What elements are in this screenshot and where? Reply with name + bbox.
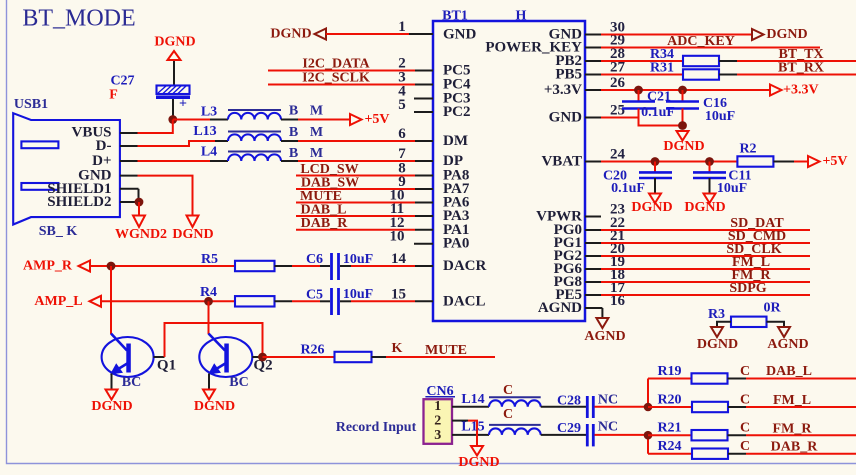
resistor R5 — [201, 252, 330, 271]
ground AGND (R3) — [778, 327, 790, 337]
node Q2 base/R26 — [258, 353, 267, 362]
svg-text:NC: NC — [598, 393, 618, 408]
inductor L4 — [201, 145, 323, 162]
svg-text:1: 1 — [434, 399, 441, 414]
svg-text:R3: R3 — [708, 307, 725, 322]
svg-text:C: C — [503, 383, 513, 398]
inductor L14 — [461, 383, 586, 407]
node AMP_L/Q2 — [204, 297, 213, 306]
svg-text:DAB_R: DAB_R — [301, 216, 349, 231]
capacitor C29 — [557, 420, 648, 447]
wire DAB_R — [296, 229, 415, 231]
svg-text:C27: C27 — [110, 74, 134, 89]
svg-text:FM_L: FM_L — [773, 393, 811, 408]
wire I2C_DATA — [268, 70, 415, 72]
svg-text:R4: R4 — [200, 285, 217, 300]
ground DGND (CN6) — [471, 446, 483, 456]
right pin numbers — [610, 20, 626, 310]
svg-text:Record Input: Record Input — [336, 420, 417, 435]
svg-text:Q1: Q1 — [157, 358, 176, 374]
svg-text:B: B — [289, 125, 298, 140]
svg-text:R31: R31 — [650, 61, 674, 76]
wire D+ to L4 — [138, 160, 211, 162]
svg-text:I2C_DATA: I2C_DATA — [302, 57, 370, 72]
net AMP_R — [23, 259, 235, 274]
svg-text:M: M — [310, 125, 323, 140]
svg-text:DGND: DGND — [91, 399, 132, 414]
wire L13 to pin6 — [281, 140, 298, 142]
capacitor C16 — [666, 90, 735, 124]
ground DGND (Q1) — [106, 390, 118, 400]
svg-text:DACR: DACR — [443, 258, 486, 274]
svg-text:VBAT: VBAT — [541, 154, 582, 170]
svg-text:DGND: DGND — [684, 200, 725, 215]
svg-text:C: C — [740, 393, 750, 408]
svg-text:R26: R26 — [300, 342, 324, 357]
svg-text:L13: L13 — [193, 124, 216, 139]
node VBAT/C20 — [651, 157, 660, 166]
left pin numbers — [390, 19, 407, 303]
svg-text:14: 14 — [391, 251, 407, 267]
connector USB1 — [13, 97, 138, 239]
ground AGND pin16 — [584, 308, 625, 344]
svg-text:C6: C6 — [306, 252, 323, 267]
svg-text:+: + — [179, 97, 187, 112]
svg-text:DGND: DGND — [172, 227, 213, 242]
svg-text:C5: C5 — [306, 288, 323, 303]
svg-text:M: M — [310, 103, 323, 118]
svg-text:M: M — [310, 146, 323, 161]
ground DGND (top) — [154, 35, 195, 61]
svg-text:ADC_KEY: ADC_KEY — [667, 34, 735, 49]
svg-text:USB1: USB1 — [14, 97, 48, 112]
svg-text:DGND: DGND — [766, 27, 807, 42]
svg-text:R19: R19 — [657, 364, 681, 379]
svg-text:BC: BC — [122, 375, 141, 390]
wire ADC_KEY pin29 — [601, 47, 820, 49]
svg-text:NC: NC — [598, 420, 618, 435]
resistor R2 — [737, 142, 808, 167]
svg-text:DAB_L: DAB_L — [766, 364, 812, 379]
svg-text:DGND: DGND — [631, 200, 672, 215]
capacitor C11 — [693, 162, 752, 197]
node AMP_R/Q1 — [107, 262, 116, 271]
svg-text:DGND: DGND — [154, 35, 195, 50]
node R21 — [644, 431, 653, 440]
wire DAB_L — [296, 215, 415, 217]
ground DGND (R3) — [711, 327, 723, 337]
svg-text:L3: L3 — [201, 105, 217, 120]
ground WGND2 — [133, 216, 145, 228]
svg-text:FM_R: FM_R — [773, 422, 813, 437]
wire SD_CLK pin20 — [601, 255, 810, 257]
svg-text:GND: GND — [549, 110, 583, 126]
svg-text:1: 1 — [398, 19, 406, 35]
svg-text:C: C — [740, 421, 750, 436]
svg-text:0R: 0R — [763, 301, 781, 316]
svg-text:24: 24 — [610, 147, 626, 163]
wire SHIELD1/2 — [138, 189, 140, 202]
resistor R26 — [263, 342, 387, 362]
svg-text:2: 2 — [434, 414, 441, 429]
svg-text:AMP_R: AMP_R — [23, 259, 73, 274]
svg-text:10uF: 10uF — [343, 287, 373, 302]
wire SDPG pin17 — [601, 294, 810, 296]
svg-text:BT_RX: BT_RX — [778, 61, 824, 76]
net AMP_L — [34, 294, 235, 309]
node VBUS junction — [168, 115, 177, 124]
capacitor C28 — [557, 393, 648, 419]
wire L3 to +5V — [281, 119, 298, 121]
svg-text:B: B — [289, 103, 298, 118]
resistor R21 — [648, 421, 856, 441]
node pin26/C21 — [634, 86, 643, 95]
resistor R20 — [648, 393, 856, 413]
wire I2C_SCLK — [268, 84, 415, 86]
svg-text:AGND: AGND — [767, 337, 808, 352]
svg-text:+3.3V: +3.3V — [544, 82, 582, 98]
wire pin25 to cap bus — [601, 117, 639, 119]
svg-text:R21: R21 — [657, 421, 681, 436]
svg-text:D-: D- — [96, 138, 112, 154]
svg-text:BT_MODE: BT_MODE — [22, 6, 135, 32]
svg-text:B: B — [289, 146, 298, 161]
capacitor C21 — [622, 90, 675, 121]
svg-text:WGND2: WGND2 — [115, 227, 167, 242]
node pin26/C16 — [678, 86, 687, 95]
svg-text:0.1uF: 0.1uF — [611, 181, 645, 196]
svg-text:K: K — [392, 341, 403, 356]
resistor R19 — [648, 364, 856, 384]
svg-text:6: 6 — [398, 126, 406, 142]
ground DGND (USB) — [187, 216, 199, 228]
power +3.3V — [770, 85, 782, 96]
resistor R31 — [601, 61, 856, 80]
wire AMP_R to Q1 collector — [110, 266, 112, 334]
node shield junction — [135, 198, 144, 207]
svg-text:DACL: DACL — [443, 293, 486, 309]
svg-text:BC: BC — [229, 375, 248, 390]
wire LCD_SW — [296, 175, 415, 177]
svg-text:DM: DM — [443, 133, 468, 149]
net DGND pin30 — [601, 27, 808, 42]
transistor Q1 — [102, 334, 176, 391]
svg-text:R2: R2 — [739, 142, 756, 157]
wire GND to DGND — [138, 176, 193, 216]
svg-text:C28: C28 — [557, 394, 581, 409]
ground DGND (Q2) — [203, 390, 215, 400]
svg-text:25: 25 — [610, 103, 625, 119]
svg-text:PA0: PA0 — [443, 236, 469, 252]
svg-text:DGND: DGND — [697, 337, 738, 352]
svg-text:DGND: DGND — [194, 399, 235, 414]
net DGND pin1 — [270, 27, 409, 42]
svg-text:DGND: DGND — [663, 139, 704, 154]
svg-text:L4: L4 — [201, 145, 217, 160]
svg-text:SHIELD2: SHIELD2 — [47, 194, 111, 210]
svg-text:10uF: 10uF — [717, 181, 747, 196]
resistor R24 — [648, 439, 856, 459]
svg-text:DGND: DGND — [270, 27, 311, 42]
power +5V — [350, 114, 362, 125]
svg-text:+5V: +5V — [822, 154, 847, 169]
svg-text:AMP_L: AMP_L — [34, 294, 82, 309]
wire C29 node riser — [647, 435, 649, 454]
connector CN6 — [336, 384, 489, 444]
wire L4 to pin7 — [281, 160, 298, 162]
svg-text:I2C_SCLK: I2C_SCLK — [302, 71, 370, 86]
wire VBUS to node — [138, 120, 173, 134]
inductor L3 — [201, 103, 323, 119]
svg-text:10uF: 10uF — [343, 252, 373, 267]
svg-text:R5: R5 — [201, 252, 218, 267]
inductor L15 — [461, 407, 586, 435]
capacitor C27 — [109, 60, 190, 120]
svg-text:MUTE: MUTE — [425, 343, 467, 358]
right pin stubs — [585, 35, 602, 309]
svg-text:L15: L15 — [461, 420, 484, 435]
svg-text:C: C — [503, 407, 513, 422]
svg-text:R20: R20 — [657, 393, 681, 408]
svg-text:10uF: 10uF — [705, 109, 735, 124]
power +5V (right) — [808, 156, 820, 167]
svg-text:C: C — [740, 364, 750, 379]
svg-text:26: 26 — [610, 75, 626, 91]
inductor L13 — [193, 124, 323, 141]
svg-text:L14: L14 — [461, 392, 484, 407]
capacitor C20 — [603, 162, 672, 197]
svg-text:PC2: PC2 — [443, 104, 471, 120]
svg-text:+5V: +5V — [364, 112, 389, 127]
wire MUTE — [296, 202, 415, 204]
wire SD_DAT pin22 — [601, 229, 810, 231]
wire SD_CMD pin21 — [601, 242, 810, 244]
svg-text:DGND: DGND — [458, 455, 499, 470]
svg-text:C: C — [740, 439, 750, 454]
svg-text:15: 15 — [391, 287, 406, 303]
wire CN6 pin2 to DGND — [468, 421, 477, 446]
svg-text:10: 10 — [390, 229, 405, 245]
wire C28 node riser — [647, 379, 649, 408]
left pin stubs — [409, 34, 433, 301]
node VBAT/C11 — [705, 157, 714, 166]
svg-text:AGND: AGND — [538, 300, 582, 316]
ground DGND (C11) — [704, 194, 716, 204]
capacitor C6 — [306, 252, 415, 280]
wire FM_R pin18 — [601, 281, 810, 283]
wire DAB_SW — [296, 188, 415, 190]
svg-text:5: 5 — [398, 97, 406, 113]
resistor R4 — [200, 285, 330, 307]
svg-text:GND: GND — [443, 26, 477, 42]
node cap bus — [678, 121, 687, 130]
svg-text:SDPG: SDPG — [729, 281, 766, 296]
node R20 — [644, 403, 653, 412]
svg-text:DAB_R: DAB_R — [771, 440, 819, 455]
wire Q1 base to Q2 base — [165, 323, 263, 357]
wire FM_L pin19 — [601, 268, 810, 270]
transistor Q2 — [199, 334, 272, 391]
capacitor C5 — [306, 287, 415, 315]
ground DGND (C20) — [649, 194, 661, 204]
IC BT1 — [433, 8, 585, 321]
ground DGND (C16) — [677, 131, 689, 141]
wire AMP_L to Q2 collector — [208, 301, 210, 334]
svg-text:F: F — [109, 88, 118, 103]
svg-text:PB5: PB5 — [555, 67, 582, 83]
resistor R3 — [708, 301, 784, 328]
wire pin24 VBAT — [601, 161, 737, 163]
wire shield to WGND2 — [138, 202, 140, 216]
svg-text:AGND: AGND — [584, 329, 625, 344]
resistor R34 — [601, 47, 856, 66]
wire pin26 +3.3V — [601, 89, 770, 91]
svg-text:C29: C29 — [557, 421, 581, 436]
svg-text:+3.3V: +3.3V — [783, 83, 819, 98]
svg-text:3: 3 — [434, 428, 441, 443]
svg-text:SB_ K: SB_ K — [39, 224, 78, 239]
wire D- to L13 — [138, 141, 216, 146]
svg-text:DAB_L: DAB_L — [301, 202, 347, 217]
wire node to L3 — [173, 119, 210, 121]
svg-text:R24: R24 — [657, 439, 681, 454]
